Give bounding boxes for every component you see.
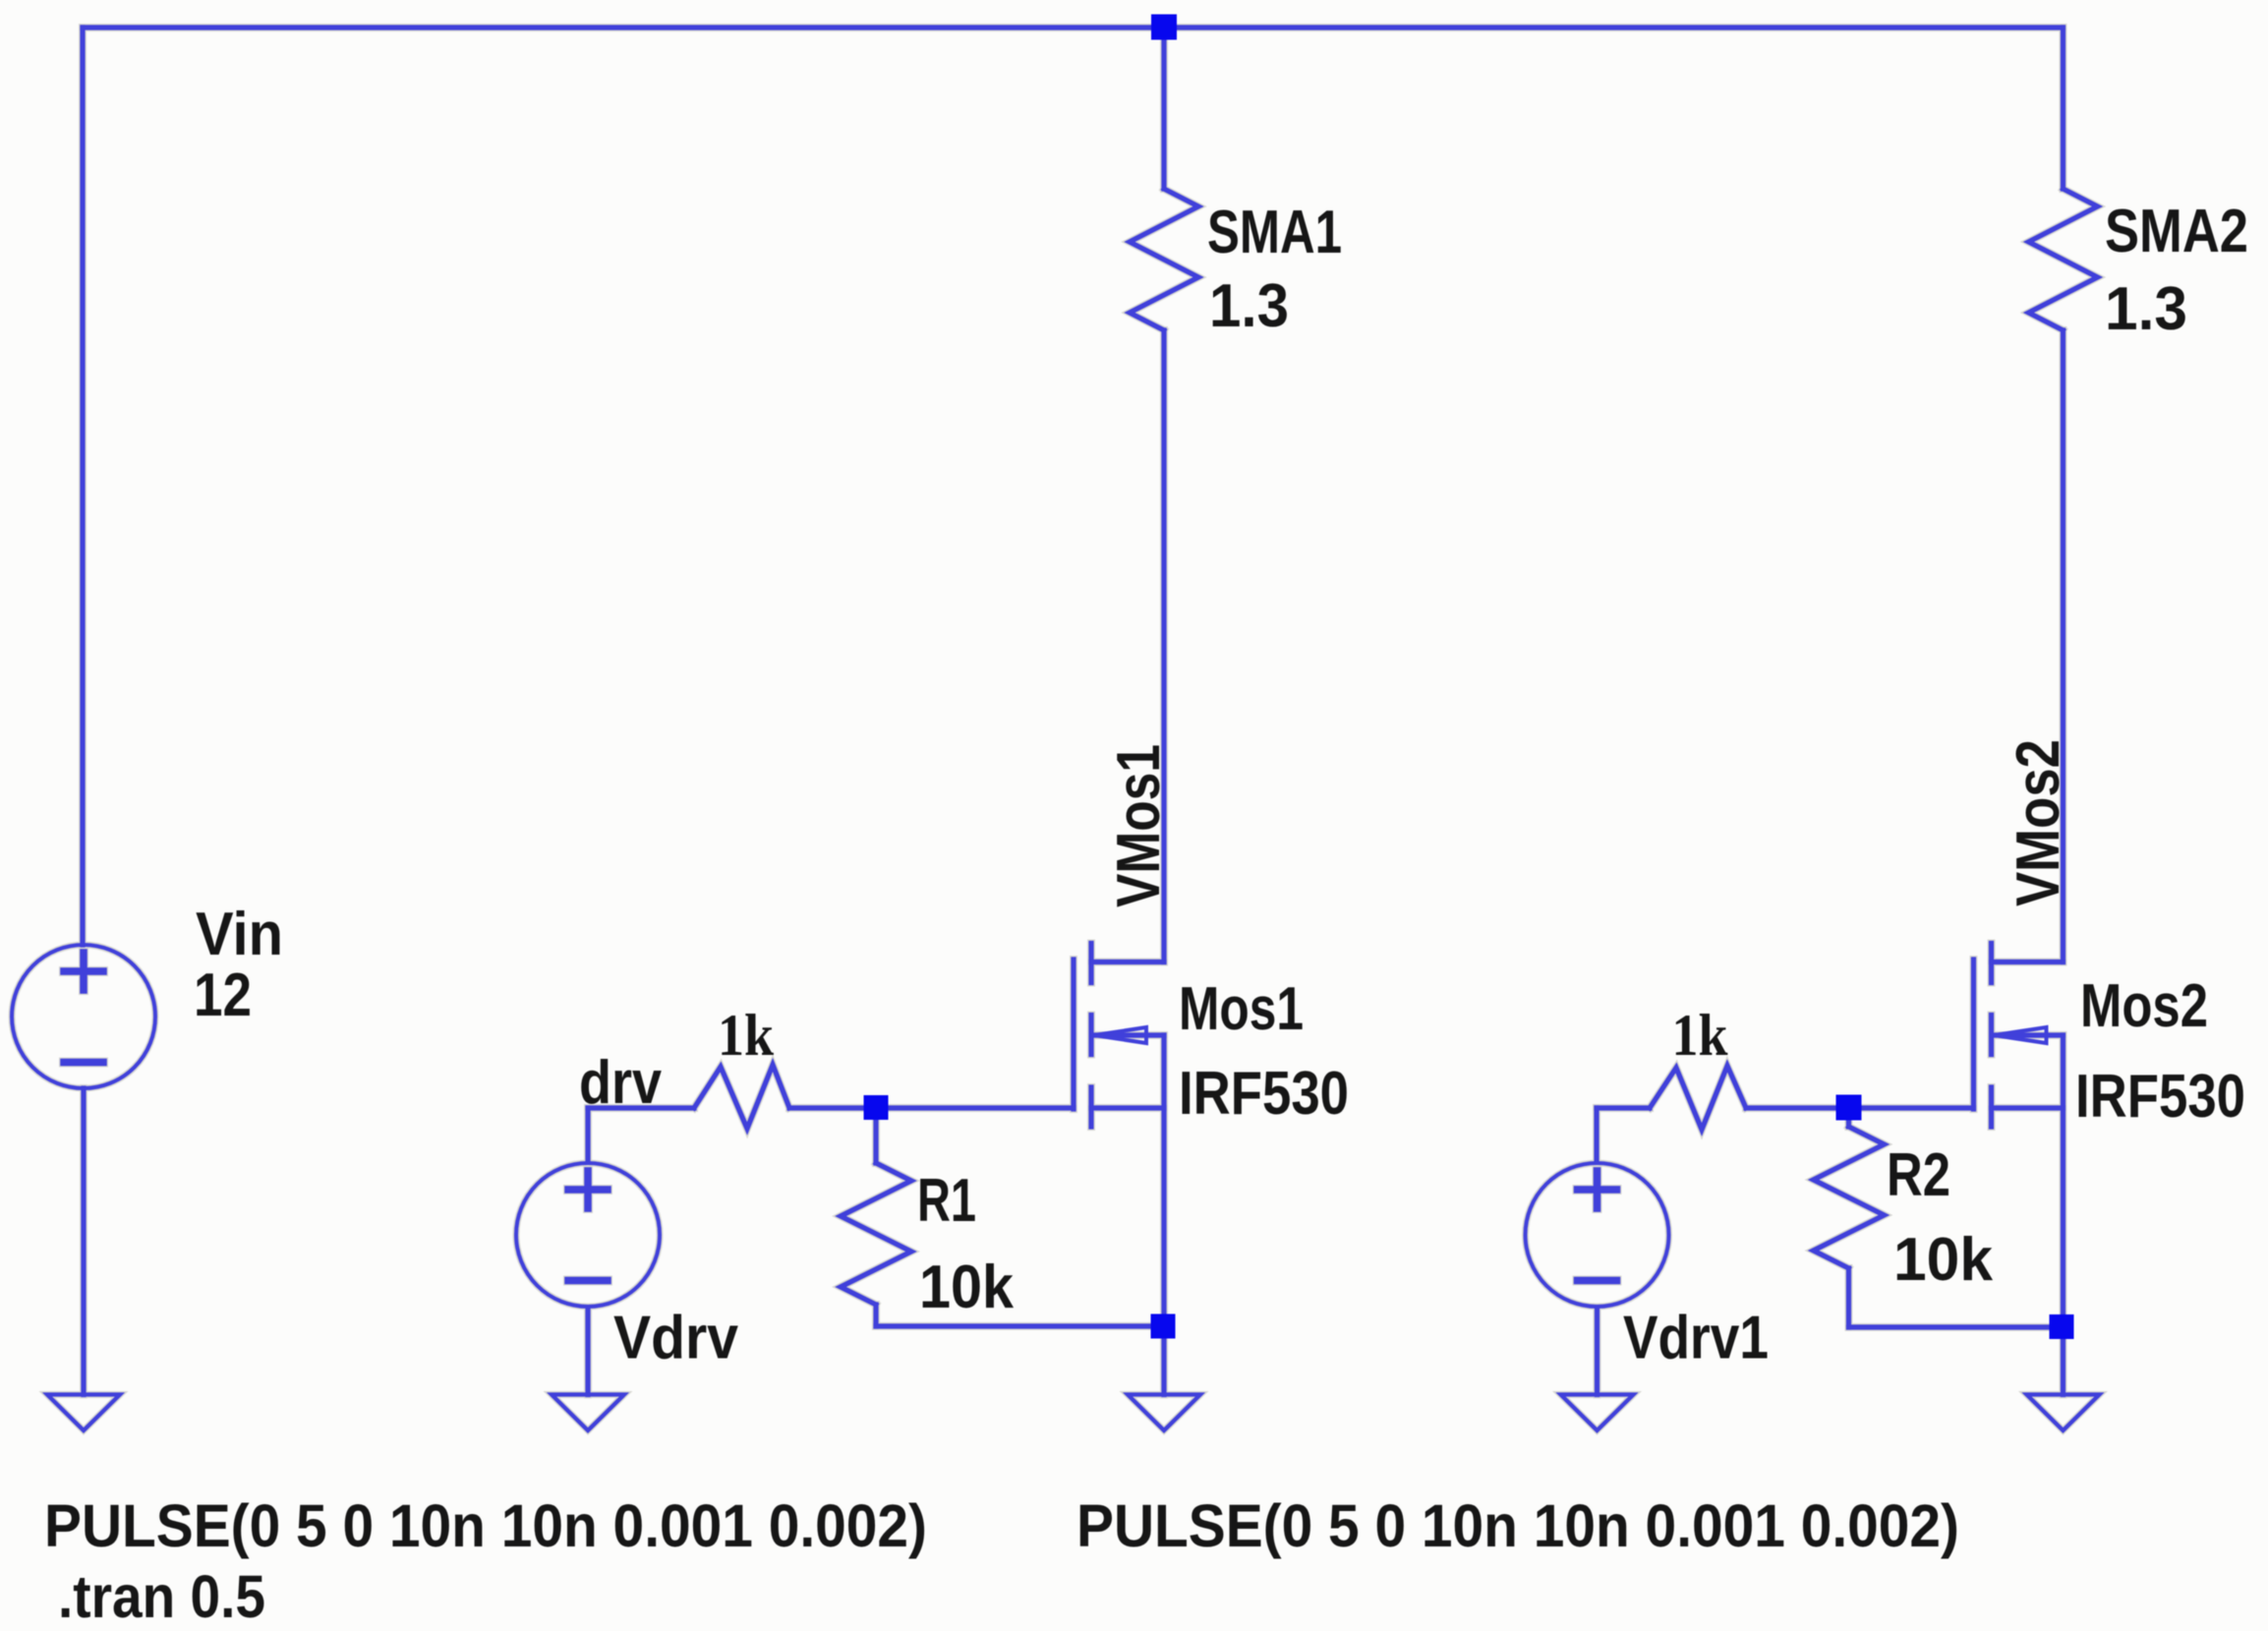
svg-text:VMos2: VMos2: [2005, 739, 2072, 906]
svg-text:SMA2: SMA2: [2105, 198, 2248, 265]
svg-text:SMA1: SMA1: [1207, 199, 1342, 266]
svg-text:Mos1: Mos1: [1179, 975, 1304, 1043]
svg-text:VMos1: VMos1: [1105, 744, 1173, 907]
svg-text:1k: 1k: [1672, 1003, 1729, 1068]
svg-text:1.3: 1.3: [1209, 272, 1289, 340]
svg-text:Vin: Vin: [196, 901, 283, 968]
svg-text:1.3: 1.3: [2105, 275, 2187, 343]
svg-text:PULSE(0 5 0 10n 10n 0.001 0.00: PULSE(0 5 0 10n 10n 0.001 0.002): [44, 1492, 927, 1559]
svg-text:drv: drv: [579, 1049, 662, 1117]
svg-text:Mos2: Mos2: [2080, 972, 2208, 1040]
svg-text:Vdrv1: Vdrv1: [1623, 1305, 1769, 1372]
svg-text:10k: 10k: [919, 1253, 1014, 1321]
svg-text:1k: 1k: [718, 1003, 775, 1068]
svg-text:.tran 0.5: .tran 0.5: [58, 1563, 265, 1630]
svg-text:PULSE(0 5 0 10n 10n 0.001 0.00: PULSE(0 5 0 10n 10n 0.001 0.002): [1076, 1492, 1959, 1559]
svg-text:10k: 10k: [1893, 1226, 1993, 1294]
svg-text:R1: R1: [917, 1167, 976, 1235]
svg-text:12: 12: [194, 961, 252, 1029]
svg-text:IRF530: IRF530: [1179, 1060, 1349, 1128]
svg-text:IRF530: IRF530: [2075, 1063, 2245, 1131]
svg-text:R2: R2: [1887, 1141, 1950, 1209]
svg-text:Vdrv: Vdrv: [613, 1305, 738, 1372]
